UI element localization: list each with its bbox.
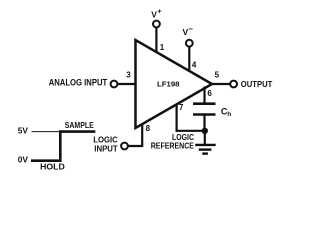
op-amp U1 LF198 triangle [136,40,213,128]
pin 6 lead wire [203,87,205,104]
svg-text:5: 5 [215,71,220,80]
svg-text:SAMPLE: SAMPLE [65,121,94,130]
Ch value label [221,107,231,118]
V+ label [151,9,161,20]
svg-text:5V: 5V [18,126,29,136]
pin 5 output lead wire [211,83,230,85]
svg-text:7: 7 [179,103,184,112]
svg-text:INPUT: INPUT [94,145,118,154]
LOGIC REFERENCE label [151,133,195,150]
svg-text:6: 6 [207,89,212,98]
svg-text:0V: 0V [18,155,29,165]
output terminal circle [230,81,237,88]
svg-text:8: 8 [146,124,151,133]
pin 3 lead wire [118,83,137,85]
ground [195,145,216,154]
V- label [183,25,194,38]
svg-text:ANALOG INPUT: ANALOG INPUT [49,78,108,88]
wire pin7 to junction [176,130,205,132]
wire junction to ground [204,131,206,145]
svg-text:4: 4 [192,61,197,70]
pin 1 lead wire [155,28,157,54]
svg-text:V: V [151,10,157,20]
svg-text:−: − [188,25,193,34]
analog input terminal circle [111,81,118,88]
svg-text:LOGIC: LOGIC [93,135,118,144]
svg-text:HOLD: HOLD [40,163,65,172]
V- terminal circle [186,40,193,47]
logic input terminal circle [121,143,128,150]
V+ terminal circle [153,21,160,28]
svg-text:1: 1 [160,43,165,52]
pin 7 lead wire [176,104,178,132]
svg-text:+: + [158,9,162,16]
LOGIC INPUT label [93,135,118,153]
logic waveform step [31,132,95,161]
svg-text:REFERENCE: REFERENCE [151,141,195,151]
waveform 5V level thin line [32,131,61,133]
pin 8 lead wire [128,124,142,147]
wire cap bottom to junction [203,115,205,132]
pin 4 lead wire [188,47,190,72]
svg-text:OUTPUT: OUTPUT [241,79,272,89]
svg-text:3: 3 [126,71,131,80]
capacitor Ch plates [193,104,216,115]
svg-text:LF198: LF198 [157,80,180,89]
svg-text:h: h [227,111,231,118]
junction node dot [202,128,208,134]
